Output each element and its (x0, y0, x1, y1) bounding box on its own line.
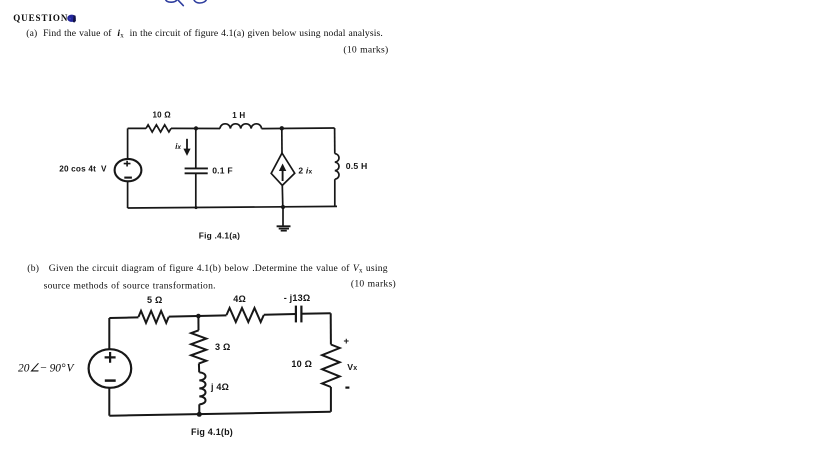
svg-text:j 4Ω: j 4Ω (210, 382, 229, 392)
svg-text:4Ω: 4Ω (233, 294, 246, 304)
svg-text:QUESTION: QUESTION (13, 13, 68, 23)
svg-text:Vx: Vx (347, 362, 357, 372)
svg-text:(b) Given the circuit diagra: (b) Given the circuit diagram of figure … (27, 263, 387, 275)
svg-text:2 ix: 2 ix (298, 166, 312, 176)
svg-text:Fig 4.1(b): Fig 4.1(b) (191, 427, 233, 437)
svg-text:(10 marks): (10 marks) (343, 44, 388, 55)
svg-text:ix: ix (175, 142, 181, 151)
svg-text:0.1 F: 0.1 F (212, 166, 233, 176)
svg-text:10 Ω: 10 Ω (291, 359, 312, 369)
svg-text:(a) Find the value of ix in: (a) Find the value of ix in the circuit … (26, 28, 383, 40)
svg-text:+: + (344, 336, 350, 347)
svg-text:20∠− 90°V: 20∠− 90°V (18, 363, 76, 375)
svg-text:0.5 H: 0.5 H (346, 161, 368, 171)
svg-text:(10 marks): (10 marks) (351, 278, 396, 289)
svg-text:10 Ω: 10 Ω (153, 111, 172, 120)
svg-text:source methods of source trans: source methods of source transformation. (44, 280, 216, 291)
svg-text:- j13Ω: - j13Ω (284, 293, 311, 303)
svg-text:Fig .4.1(a): Fig .4.1(a) (199, 231, 240, 241)
svg-text:5 Ω: 5 Ω (147, 295, 162, 305)
svg-text:20 cos 4t V: 20 cos 4t V (59, 165, 107, 174)
svg-text:3 Ω: 3 Ω (215, 342, 230, 352)
svg-text:1 H: 1 H (232, 111, 245, 120)
